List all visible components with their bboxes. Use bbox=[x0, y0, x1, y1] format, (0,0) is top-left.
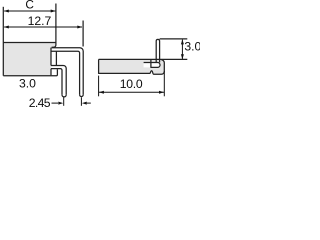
svg-text:12.7: 12.7 bbox=[28, 14, 52, 28]
wire: extension line upper pin centerline bbox=[80, 97, 82, 106]
wire: extension line strip left end bbox=[98, 76, 100, 97]
svg-text:C: C bbox=[25, 0, 34, 12]
wire: extension line for C right end bbox=[55, 4, 57, 43]
strip top edge + extension line to 3.0 dimension bbox=[99, 58, 188, 60]
body bottom edge with foot pocket bbox=[3, 69, 57, 76]
dimension line 2.45 right shaft bbox=[87, 102, 91, 104]
lower lead pin rounded tip bbox=[62, 95, 66, 97]
body right edge seam between leads bbox=[55, 51, 57, 65]
strip outer outline with end fold bbox=[99, 59, 165, 74]
wire: extension line lower pin centerline bbox=[63, 97, 65, 106]
wire: extension line for 12.7 right end bbox=[82, 21, 84, 47]
svg-text:3.0: 3.0 bbox=[19, 77, 36, 91]
dimension line 2.45 left shaft bbox=[52, 102, 59, 104]
svg-text:10.0: 10.0 bbox=[120, 77, 143, 91]
dimension line 3.0 vertical bbox=[181, 40, 183, 59]
connector body top and stepped right edge bbox=[3, 43, 56, 48]
arrowhead 12.7 left bbox=[4, 26, 9, 29]
upright tab bbox=[156, 39, 159, 62]
wire: extension line from tab top bbox=[160, 38, 188, 40]
arrowhead 3.0 up bbox=[181, 39, 184, 44]
arrowhead C right bbox=[51, 10, 56, 13]
arrowhead 2.45 pointing left bbox=[82, 102, 87, 105]
arrowhead 10.0 right bbox=[159, 91, 164, 94]
dimension line 10.0 bbox=[99, 91, 164, 93]
foot pocket left edge bbox=[50, 69, 52, 76]
lower SMT lead outer contour bbox=[51, 66, 66, 95]
svg-text:2.45: 2.45 bbox=[29, 96, 51, 110]
upper SMT lead inner contour bbox=[51, 51, 80, 95]
upper SMT lead outer contour bbox=[52, 48, 84, 95]
arrowhead 12.7 right bbox=[77, 26, 82, 29]
arrowhead 10.0 left bbox=[99, 91, 104, 94]
arrowhead 3.0 down bbox=[181, 54, 184, 59]
lower SMT lead inner contour bbox=[51, 69, 62, 95]
svg-text:3.0: 3.0 bbox=[184, 39, 200, 53]
arrowhead 2.45 pointing right bbox=[58, 102, 63, 105]
dimension line C bbox=[4, 10, 55, 12]
upper lead pin rounded tip bbox=[80, 95, 84, 97]
wire: body left edge / extension line bbox=[2, 7, 4, 76]
strip inner fold contour bbox=[144, 60, 160, 68]
arrowhead C left bbox=[4, 10, 9, 13]
wire: extension line strip right end bbox=[163, 71, 165, 96]
dimension line 12.7 bbox=[4, 26, 82, 28]
metal strip fill (right figure) bbox=[99, 59, 165, 74]
body cavity left edge bbox=[50, 48, 52, 66]
fold core white cutout (right figure) bbox=[144, 63, 160, 68]
connector body fill (left figure) bbox=[3, 43, 56, 76]
